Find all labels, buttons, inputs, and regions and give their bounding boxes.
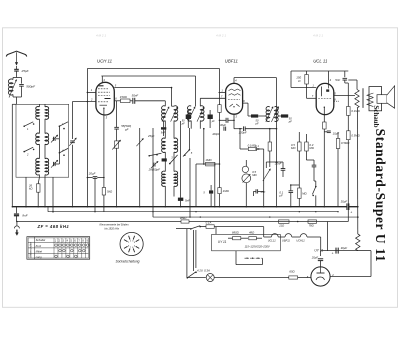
potentiometer volume bbox=[242, 160, 258, 207]
svg-text:Schalter: Schalter bbox=[36, 238, 46, 242]
heater UCL11 bbox=[268, 234, 278, 243]
capacitor 5nF IF primary bbox=[161, 121, 167, 136]
wire UBF anode corner bbox=[248, 103, 251, 116]
label UBF11 bbox=[225, 59, 239, 64]
svg-text:Schaub: Schaub bbox=[372, 105, 380, 127]
wire coil secondary down bbox=[44, 177, 54, 212]
resistor osc grid leak bbox=[218, 105, 221, 113]
resistor 0.3M b bbox=[305, 134, 315, 160]
svg-text:30µF: 30µF bbox=[341, 246, 348, 250]
svg-text:25pF: 25pF bbox=[147, 134, 155, 138]
capacitor 5nF osc bbox=[178, 121, 190, 207]
bus second bbox=[48, 207, 338, 212]
svg-text:Mittel: Mittel bbox=[36, 249, 43, 253]
voltage taps dashed bbox=[236, 251, 262, 265]
tube UCH11 bbox=[96, 82, 114, 115]
capacitor 30uF cathode UBF bbox=[219, 118, 235, 127]
resistor 0.1M af bbox=[255, 128, 272, 163]
UCH11 internals bbox=[98, 86, 111, 115]
svg-text:8nF: 8nF bbox=[22, 214, 27, 218]
wire osc vertical 153 bbox=[152, 128, 154, 217]
band table header digits bbox=[55, 239, 89, 242]
resistor 690 ohm bbox=[228, 230, 248, 239]
svg-text:pF: pF bbox=[124, 128, 129, 132]
capacitor 50nF bbox=[130, 94, 165, 104]
UBF11 internals bbox=[228, 89, 241, 108]
band table row labels bbox=[36, 238, 46, 259]
capacitor 30uF mid bbox=[341, 200, 353, 215]
earth line right bbox=[16, 221, 181, 223]
svg-text:500pF: 500pF bbox=[26, 84, 36, 88]
antenna input coil L1 with 500pF bbox=[8, 78, 23, 105]
capacitor 25pF antenna bbox=[14, 66, 19, 78]
wire det mid bbox=[258, 115, 281, 117]
rectifier tube UY11 bbox=[311, 267, 330, 286]
svg-text:5nF: 5nF bbox=[335, 78, 340, 82]
svg-text:pF: pF bbox=[181, 122, 185, 125]
heater rail resistor 78 bbox=[297, 220, 317, 228]
svg-text:0.1MΩ: 0.1MΩ bbox=[351, 109, 360, 113]
choke field coil bbox=[356, 108, 360, 251]
svg-text:pF: pF bbox=[288, 119, 292, 123]
mains switch pole 1 bbox=[176, 226, 206, 230]
label UCH 11 bbox=[97, 59, 113, 64]
label Sockelschaltung bbox=[116, 259, 140, 263]
wire line y164 bbox=[196, 163, 220, 165]
osc switch contact 5 bbox=[183, 76, 196, 157]
label 58(500)pF bbox=[121, 124, 131, 131]
svg-text:Kurz: Kurz bbox=[36, 244, 42, 248]
resistor 1M vertical bbox=[218, 188, 230, 207]
oscillator coil pair upper bbox=[162, 138, 178, 152]
resistor 26k bbox=[28, 177, 40, 207]
ground bus main bbox=[12, 206, 358, 208]
trimmer osc A bbox=[136, 138, 143, 146]
wire stub bus bbox=[94, 178, 96, 212]
top bus B+ left bbox=[87, 68, 219, 70]
resistor 0.1M agc bbox=[239, 128, 264, 207]
wire heater to rectifier bbox=[321, 207, 349, 251]
band switch contact 2 left bbox=[23, 147, 34, 156]
transformer core bbox=[362, 88, 364, 108]
UCH11 pin 1 bbox=[87, 88, 96, 93]
trimmer padder bbox=[112, 140, 120, 207]
svg-text:48Ω: 48Ω bbox=[249, 230, 255, 234]
title Schaub bbox=[372, 105, 380, 127]
antenna bbox=[6, 51, 26, 65]
osc switch contact a bbox=[148, 153, 161, 156]
label UCL 11 bbox=[313, 59, 328, 64]
svg-text:20µF: 20µF bbox=[311, 256, 319, 260]
label ZF 468 kHz bbox=[37, 224, 70, 229]
svg-text:UCL 11: UCL 11 bbox=[313, 59, 328, 64]
top bus B+ right bbox=[291, 70, 348, 72]
svg-text:28(50)pF: 28(50)pF bbox=[148, 168, 161, 172]
capacitor 50pF det right bbox=[281, 114, 292, 123]
tube UCL11 bbox=[316, 83, 334, 114]
IF1 secondary coils bbox=[188, 106, 204, 121]
wire IF1 sec bottom bbox=[191, 121, 200, 129]
UCL11 pin 1 wire bbox=[291, 71, 316, 88]
trimmer capacitor T1 bbox=[51, 135, 58, 143]
capacitor 100pF bbox=[234, 126, 277, 134]
UY11 pin labels bbox=[307, 273, 334, 279]
heater rail resistor 21 bbox=[278, 220, 289, 228]
wire cathode UCH bbox=[103, 115, 108, 212]
svg-text:5nF: 5nF bbox=[161, 131, 166, 134]
resistor 0.5M right bbox=[347, 131, 361, 140]
svg-text:100pF: 100pF bbox=[212, 132, 220, 136]
UY11 pin2 wire bbox=[330, 251, 371, 277]
right column vertical bbox=[347, 83, 349, 207]
svg-text:0.5MΩ: 0.5MΩ bbox=[341, 141, 350, 145]
svg-text:30µF: 30µF bbox=[341, 200, 348, 204]
capacitor 8nF earth bbox=[14, 207, 28, 222]
resistor 150ohm UCL bbox=[296, 71, 316, 98]
antenna band coils bbox=[36, 107, 49, 175]
IF2 transformer coils bbox=[266, 107, 278, 122]
capacitor 5nF af bbox=[203, 185, 213, 207]
IF1 secondary trimmers bbox=[188, 107, 204, 122]
svg-text:Sockelschaltung: Sockelschaltung bbox=[116, 259, 140, 263]
resistor 65 ohm bbox=[289, 270, 311, 280]
capacitor osc padder black bbox=[162, 158, 167, 161]
faint header marks bbox=[96, 34, 323, 38]
output transformer secondary bbox=[367, 93, 373, 107]
UCL11 cathode network bbox=[323, 115, 340, 207]
IF1 primary coils bbox=[162, 106, 178, 121]
capacitor tone small bbox=[306, 160, 316, 181]
band switch contact 1 left bbox=[23, 122, 34, 131]
svg-text:Lang: Lang bbox=[36, 255, 42, 259]
svg-text:4 M 2 1: 4 M 2 1 bbox=[96, 34, 106, 38]
svg-text:4 M 2 1: 4 M 2 1 bbox=[313, 34, 323, 38]
IF1 coupling capacitor left bbox=[181, 110, 191, 128]
svg-text:4 M 2 1: 4 M 2 1 bbox=[216, 34, 226, 38]
svg-text:150Ω: 150Ω bbox=[120, 95, 128, 99]
wire box bottom stubs bbox=[25, 126, 59, 207]
svg-text:pF: pF bbox=[255, 121, 259, 125]
svg-text:UCL11: UCL11 bbox=[268, 238, 276, 242]
label 28(50)pF bbox=[148, 168, 161, 172]
svg-text:+: + bbox=[350, 211, 352, 215]
capacitor 100pF b bbox=[212, 127, 225, 137]
svg-text:5nF: 5nF bbox=[185, 198, 190, 202]
svg-text:Klemmenwerte bei Skalen: Klemmenwerte bei Skalen bbox=[100, 224, 130, 227]
fuse 0.1A bbox=[206, 221, 264, 229]
svg-text:+: + bbox=[332, 251, 334, 255]
label UY 11 box bbox=[218, 240, 227, 244]
tube UBF11 bbox=[226, 83, 243, 114]
resistor 150ohm UCH bbox=[120, 95, 130, 103]
capacitor 30uF psu bbox=[321, 246, 357, 255]
resistor 98k mains bbox=[180, 216, 348, 223]
resistor 0.5M a bbox=[291, 132, 301, 185]
tuning capacitor C-gang1 bbox=[69, 102, 76, 207]
dial lamp 4.2V bbox=[197, 269, 289, 282]
loudspeaker bbox=[369, 86, 395, 111]
wire avc vertical bbox=[86, 69, 88, 207]
wire v214 bbox=[214, 163, 216, 207]
capacitor 0.1uF bbox=[279, 185, 293, 207]
output transformer primary bbox=[348, 80, 359, 108]
band table circles kurz bbox=[55, 244, 89, 247]
UCL11 internals bbox=[318, 83, 332, 114]
potentiometer arm left bbox=[263, 162, 271, 181]
svg-text:UBF11: UBF11 bbox=[282, 238, 290, 242]
band table columns bbox=[54, 238, 86, 258]
svg-text:98kΩ: 98kΩ bbox=[180, 216, 188, 220]
resistor 0.5M c bbox=[290, 184, 308, 207]
svg-text:1nF: 1nF bbox=[260, 190, 265, 194]
bus third bbox=[153, 216, 358, 218]
capacitor 50pF det left bbox=[251, 114, 259, 125]
wire v196 bbox=[195, 164, 197, 207]
svg-text:1MΩ: 1MΩ bbox=[205, 158, 212, 162]
band switch contact 4 right bbox=[59, 148, 68, 156]
IF2 trimmers bbox=[266, 107, 279, 122]
svg-text:690Ω: 690Ω bbox=[232, 230, 240, 234]
UBF11 pin 3 bottom bbox=[234, 114, 237, 129]
wire IF1 to UBF grid bbox=[200, 94, 225, 106]
svg-text:5kΩ: 5kΩ bbox=[107, 190, 113, 194]
svg-text:78Ω: 78Ω bbox=[309, 224, 314, 228]
wire v203 bbox=[203, 128, 205, 165]
capacitor 5nF out bbox=[335, 71, 348, 83]
osc switch contact 3 bbox=[169, 155, 178, 165]
band switch contact 3 right bbox=[59, 122, 68, 130]
svg-text:UY 11: UY 11 bbox=[218, 240, 227, 244]
UCL11 pin 5 bbox=[334, 92, 355, 96]
title Standard-Super U 11 bbox=[373, 129, 388, 262]
heater UBF11 bbox=[282, 234, 292, 243]
svg-text:0.5MΩ: 0.5MΩ bbox=[351, 134, 360, 138]
svg-text:µF: µF bbox=[279, 193, 283, 197]
UCL11 pin 8 bbox=[334, 98, 339, 101]
svg-text:1MΩ: 1MΩ bbox=[223, 189, 230, 193]
svg-text:UCH 11: UCH 11 bbox=[97, 59, 113, 64]
resistor 0.5M ucl grid bbox=[336, 132, 350, 207]
label 25pF bbox=[21, 69, 30, 73]
svg-text:UBF11: UBF11 bbox=[225, 59, 239, 64]
UCH11 pin 6 bbox=[114, 97, 120, 101]
mains drop verticals bbox=[187, 229, 196, 278]
label 25pF osc bbox=[147, 134, 155, 138]
note klemmenwerte bbox=[100, 224, 130, 231]
wire grid line UCH bbox=[73, 101, 97, 103]
wire diode detector vertical bbox=[276, 78, 278, 207]
capacitor 58(500)pF bbox=[114, 101, 119, 141]
band table left label bbox=[30, 242, 33, 258]
svg-text:bis 1520 kHz: bis 1520 kHz bbox=[105, 227, 120, 230]
svg-text:UCH11: UCH11 bbox=[296, 238, 305, 242]
resistor 48 ohm bbox=[249, 230, 262, 239]
tone switch bbox=[312, 181, 316, 207]
svg-text:20µF: 20µF bbox=[88, 171, 96, 175]
oscillator coil pair lower bbox=[162, 171, 178, 186]
wire osc stems bbox=[165, 87, 174, 207]
svg-text:30µF: 30µF bbox=[220, 123, 226, 127]
resistor 0.1M right bbox=[347, 107, 361, 116]
resistor 5k bbox=[102, 188, 113, 196]
socket pins bbox=[124, 236, 139, 253]
earth symbol bbox=[14, 222, 19, 236]
resistor 1M horizontal bbox=[205, 158, 215, 166]
svg-text:65Ω: 65Ω bbox=[289, 270, 295, 274]
svg-text:50nF: 50nF bbox=[132, 94, 139, 98]
band table circles lang bbox=[55, 255, 77, 258]
wire osc vertical 139.7 bbox=[139, 128, 141, 207]
svg-text:115–125V/220–230V: 115–125V/220–230V bbox=[245, 245, 270, 249]
svg-text:25pF: 25pF bbox=[21, 69, 30, 73]
mains switch pole 2 bbox=[187, 272, 206, 279]
IF1 coupling capacitor right bbox=[208, 110, 216, 128]
heater chain line bbox=[264, 227, 321, 237]
wire coil stems bbox=[39, 104, 45, 177]
label UY 11 tube bbox=[314, 249, 323, 253]
svg-text:4.2V, 0.3A: 4.2V, 0.3A bbox=[197, 269, 210, 273]
svg-text:Standard-Super U 11: Standard-Super U 11 bbox=[373, 129, 388, 262]
wire v220 from top bus bbox=[219, 69, 221, 188]
UCH11 pin 5 bbox=[114, 83, 171, 87]
capacitor 20nF bbox=[266, 161, 285, 177]
UCH11 pin 2 bbox=[90, 97, 93, 101]
svg-text:Wellenschalter: Wellenschalter bbox=[30, 242, 33, 258]
IF1 primary trimmers bbox=[162, 107, 178, 122]
UBF11 pin 6 bbox=[243, 99, 248, 103]
band filter box bbox=[16, 104, 69, 177]
capacitor 20uF rect bbox=[311, 251, 323, 267]
band table frame bbox=[27, 237, 90, 260]
UCL11 pin 4 top bbox=[328, 71, 331, 83]
osc trimmer B bbox=[151, 161, 158, 168]
trimmer capacitor T2 bbox=[51, 160, 58, 168]
bus junction dots bbox=[12, 206, 339, 218]
wire left earth vertical bbox=[12, 104, 16, 206]
svg-text:ZF = 468 kHz: ZF = 468 kHz bbox=[37, 224, 70, 229]
wire osc right vertical bbox=[189, 158, 191, 217]
UBF11 pin 4 top bbox=[234, 78, 277, 84]
UBF11 pin 1 bbox=[219, 89, 226, 93]
svg-text:21Ω: 21Ω bbox=[278, 224, 284, 228]
voltage selector box bbox=[212, 227, 281, 251]
band table circles mittel bbox=[59, 249, 85, 252]
label 500pF bbox=[26, 84, 36, 88]
heater UCH11 bbox=[296, 234, 307, 243]
tube socket diagram bbox=[120, 232, 143, 255]
capacitor 1nF bbox=[254, 189, 266, 196]
capacitor 20uF left bbox=[87, 171, 105, 178]
UCH11 pin 4 top bbox=[101, 76, 195, 82]
svg-text:0.1A: 0.1A bbox=[206, 221, 212, 225]
label mains voltages bbox=[245, 245, 270, 249]
